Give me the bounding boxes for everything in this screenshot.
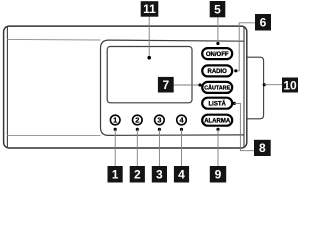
- button CAUTARE: [202, 82, 232, 93]
- callout line 3: [158, 128, 161, 166]
- svg-text:10: 10: [283, 78, 297, 92]
- label box 1: [108, 166, 123, 183]
- svg-text:CĂUTARE: CĂUTARE: [204, 85, 230, 92]
- label box 5: [210, 1, 226, 17]
- side knob (label 10 target): [246, 57, 264, 119]
- label box 7: [158, 77, 174, 93]
- svg-text:2: 2: [134, 168, 141, 182]
- button ON/OFF: [202, 48, 232, 59]
- callout line 5: [216, 17, 219, 45]
- label box 3: [152, 166, 167, 183]
- svg-text:11: 11: [143, 2, 156, 16]
- callout line 4: [180, 128, 183, 166]
- label box 9: [210, 166, 226, 183]
- control panel outline: [101, 40, 245, 135]
- device body outer outline: [4, 26, 247, 148]
- callout line 6: [234, 23, 255, 73]
- svg-text:ON/OFF: ON/OFF: [206, 52, 229, 58]
- bottom seam line: [7, 134, 100, 136]
- display screen (label 11 target): [107, 47, 192, 103]
- preset button 3: [155, 115, 165, 125]
- label box 11: [141, 1, 159, 17]
- preset button 1: [110, 115, 120, 125]
- button RADIO: [202, 65, 232, 76]
- callout line 1: [114, 128, 117, 166]
- preset button 4: [177, 115, 187, 125]
- svg-text:1: 1: [112, 168, 119, 182]
- svg-text:5: 5: [214, 2, 221, 16]
- svg-text:LISTĂ: LISTĂ: [209, 101, 227, 108]
- svg-text:3: 3: [156, 168, 163, 182]
- callout line 11: [147, 17, 151, 60]
- label box 10: [282, 78, 298, 93]
- preset button 2: [133, 115, 143, 125]
- device right inner edge: [243, 26, 245, 148]
- label box 8: [254, 140, 271, 156]
- svg-text:4: 4: [178, 168, 185, 182]
- svg-text:2: 2: [135, 116, 139, 125]
- callout line 7: [174, 83, 202, 86]
- svg-text:8: 8: [259, 141, 266, 155]
- svg-text:1: 1: [113, 116, 117, 125]
- callout line 2: [136, 128, 139, 166]
- label box 6: [255, 14, 271, 31]
- svg-text:RADIO: RADIO: [208, 69, 228, 75]
- label box 4: [174, 166, 189, 183]
- button ALARMA: [202, 115, 232, 126]
- svg-text:3: 3: [157, 116, 161, 125]
- svg-text:6: 6: [260, 16, 267, 30]
- callout line 10: [263, 83, 282, 86]
- label box 2: [130, 166, 145, 183]
- device left inner edge: [6, 26, 8, 148]
- callout line 8: [233, 102, 254, 151]
- callout line 9: [216, 128, 219, 166]
- top seam line: [7, 38, 100, 41]
- button LISTA: [202, 98, 232, 109]
- svg-text:ALARMA: ALARMA: [204, 119, 231, 125]
- svg-text:7: 7: [162, 78, 169, 92]
- svg-text:9: 9: [215, 168, 222, 182]
